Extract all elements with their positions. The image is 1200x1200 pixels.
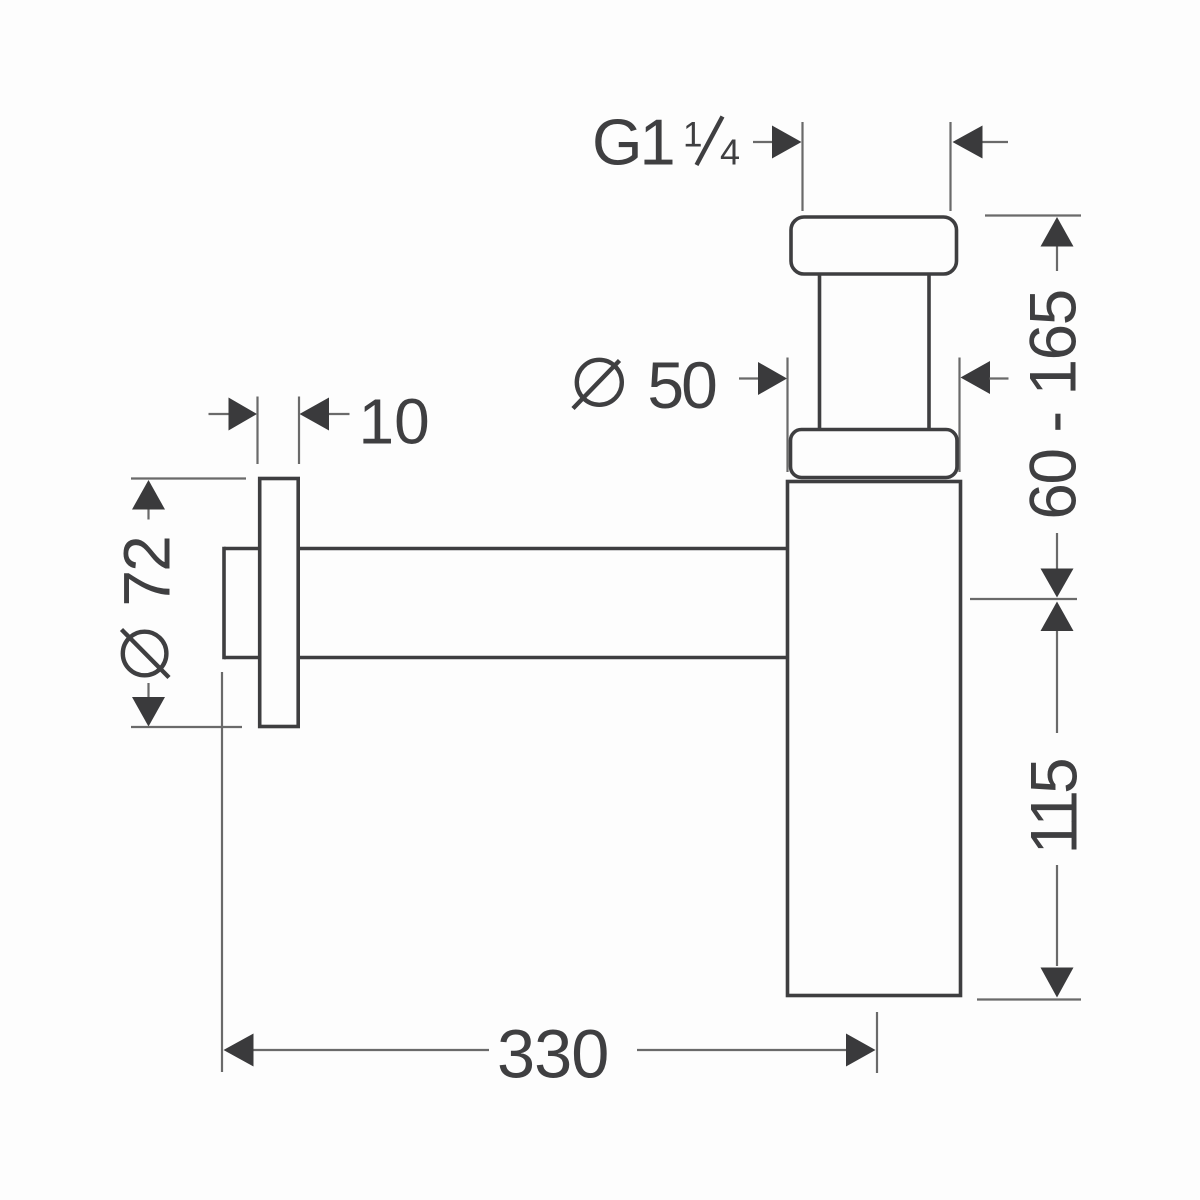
dimension 10 label [359,386,430,458]
dimension 60-165 down arrow [1041,533,1074,598]
dimension 330 right extension line [876,1012,878,1073]
dimension 330 right arrow [637,1034,876,1067]
dimension D50 right arrow [961,361,1009,394]
dimension 60-165 top tick [985,214,1081,216]
svg-text:72: 72 [110,537,184,606]
dimension 10 left arrow [209,398,258,431]
dimension D72 top arrow [132,480,165,520]
dimension D72 label [110,537,184,677]
siphon body [788,482,961,996]
dimension 330 left extension line [221,672,223,1072]
dimension D50 left arrow [739,362,787,395]
dimension G 1 1/4 extension lines [803,122,951,211]
svg-text:115: 115 [1017,760,1091,855]
dimension 330 left arrow [224,1034,490,1067]
dimension mid tick [970,598,1077,600]
svg-text:4: 4 [720,132,740,173]
compression nut [791,430,958,478]
horizontal outlet pipe [224,547,790,660]
dimension D50 label [573,348,716,422]
dimension D72 bottom arrow [132,683,165,727]
dimension 115 down arrow [1041,865,1074,998]
dimension G 1 1/4 label [592,106,740,179]
dimension D50 extension lines [788,358,960,473]
vertical inlet pipe [820,250,930,435]
dimension 10 right arrow [300,398,350,431]
wall flange [260,479,299,727]
svg-text:50: 50 [647,348,716,422]
svg-text:G1: G1 [592,106,673,179]
svg-text:60 - 165: 60 - 165 [1016,290,1090,519]
top cap [791,217,957,274]
dimension D72 bottom tick [131,726,242,728]
svg-text:1: 1 [683,116,702,155]
dimension 10 extension lines [258,397,300,465]
dimension D72 top tick [131,477,246,479]
dimension 60-165 up arrow [1041,217,1074,271]
svg-text:330: 330 [497,1016,608,1093]
dimension G 1 1/4 right arrow [953,126,1009,159]
dimension G 1 1/4 left arrow [753,126,802,159]
dimension 115 bottom tick [977,998,1081,1000]
dimension 115 up arrow [1041,602,1074,734]
svg-text:10: 10 [359,386,430,458]
